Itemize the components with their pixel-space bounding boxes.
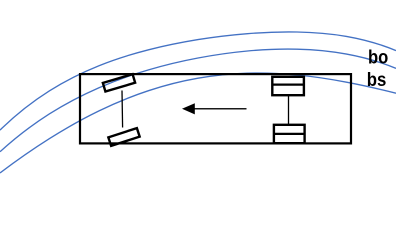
rear left wheel bbox=[272, 77, 304, 95]
inner turning path arc (bottom) bbox=[0, 73, 396, 173]
front axle line bbox=[121, 91, 124, 128]
svg-text:bo: bo bbox=[368, 47, 388, 68]
front left wheel (steered) bbox=[103, 74, 135, 91]
direction arrow shaft bbox=[194, 108, 247, 110]
rear axle line bbox=[288, 95, 290, 125]
rear right wheel tread line bbox=[274, 133, 305, 135]
rear right wheel bbox=[274, 125, 305, 143]
car body rectangle bbox=[80, 74, 351, 143]
middle turning path arc bbox=[0, 49, 396, 152]
svg-text:bs: bs bbox=[367, 70, 387, 91]
direction arrow head bbox=[182, 103, 195, 114]
outer turning path arc (top) bbox=[0, 32, 396, 130]
front right wheel (steered) bbox=[108, 128, 139, 146]
rear left wheel tread line bbox=[272, 83, 304, 85]
